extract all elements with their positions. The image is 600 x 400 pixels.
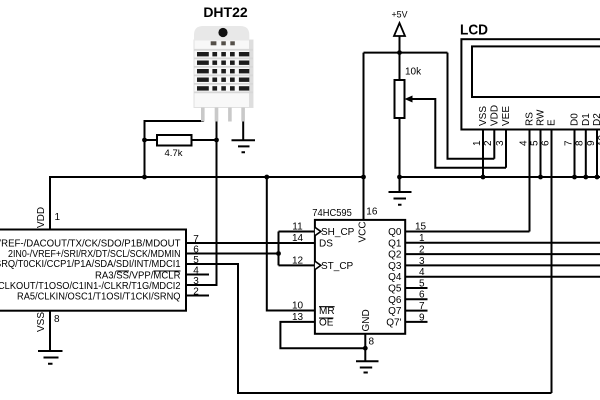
- svg-text:CLKOUT/T1OSO/C1IN1-/CLKR/T1G/M: CLKOUT/T1OSO/C1IN1-/CLKR/T1G/MDCI2: [0, 281, 181, 292]
- svg-text:RA5/CLKIN/OSC1/T1OSI/T1CKI/SRN: RA5/CLKIN/OSC1/T1OSI/T1CKI/SRNQ: [17, 291, 181, 302]
- svg-text:+5V: +5V: [392, 9, 408, 19]
- svg-text:4: 4: [419, 267, 425, 278]
- svg-text:11: 11: [292, 222, 303, 233]
- svg-text:13: 13: [292, 312, 304, 323]
- svg-text:4.7k: 4.7k: [165, 148, 183, 159]
- svg-text:1: 1: [419, 233, 425, 244]
- svg-text:Q4: Q4: [388, 272, 402, 283]
- svg-text:2: 2: [193, 287, 199, 298]
- svg-text:E: E: [547, 119, 558, 126]
- svg-text:9: 9: [586, 140, 597, 146]
- svg-text:74HC595: 74HC595: [312, 207, 352, 219]
- svg-text:DS: DS: [319, 238, 333, 249]
- svg-text:15: 15: [415, 222, 427, 233]
- svg-text:Q0: Q0: [388, 227, 402, 238]
- svg-text:1: 1: [55, 212, 61, 223]
- svg-text:Q3: Q3: [388, 261, 402, 272]
- svg-text:VEE: VEE: [501, 106, 512, 126]
- svg-text:D2: D2: [592, 113, 600, 126]
- svg-text:VCC: VCC: [358, 221, 369, 242]
- svg-text:3: 3: [419, 256, 425, 267]
- svg-text:RW: RW: [536, 109, 547, 126]
- svg-text:14: 14: [292, 233, 304, 244]
- svg-text:VSS: VSS: [36, 312, 47, 332]
- svg-text:RA3/SS/VPP/MCLR: RA3/SS/VPP/MCLR: [95, 270, 181, 281]
- svg-text:10k: 10k: [405, 67, 422, 78]
- svg-text:10: 10: [292, 301, 304, 312]
- svg-text:D1: D1: [581, 113, 592, 126]
- svg-text:9: 9: [419, 312, 425, 323]
- svg-text:6: 6: [419, 290, 425, 301]
- svg-text:7: 7: [563, 140, 574, 146]
- svg-text:3: 3: [193, 276, 199, 287]
- svg-text:3: 3: [495, 140, 506, 146]
- svg-text:5: 5: [193, 255, 199, 266]
- svg-text:Q5: Q5: [388, 284, 402, 295]
- svg-text:OE: OE: [319, 317, 334, 328]
- svg-text:8: 8: [369, 337, 375, 348]
- svg-text:GND: GND: [361, 309, 372, 331]
- svg-text:7: 7: [419, 301, 425, 312]
- svg-text:5: 5: [529, 140, 540, 146]
- svg-text:2: 2: [483, 140, 494, 146]
- svg-text:12: 12: [292, 256, 304, 267]
- svg-text:4: 4: [518, 140, 529, 146]
- svg-text:5: 5: [419, 278, 425, 289]
- svg-text:8: 8: [54, 314, 60, 325]
- svg-text:2: 2: [419, 245, 425, 256]
- svg-text:Q1: Q1: [388, 238, 402, 249]
- svg-text:16: 16: [366, 206, 378, 217]
- svg-text:VDD: VDD: [36, 207, 47, 228]
- svg-text:DHT22: DHT22: [203, 4, 248, 20]
- svg-text:D0: D0: [570, 113, 581, 126]
- svg-text:VSS: VSS: [478, 106, 489, 126]
- svg-text:MR: MR: [319, 306, 335, 317]
- svg-text:VDD: VDD: [490, 105, 501, 126]
- svg-text:1: 1: [472, 140, 483, 146]
- svg-text:Q6: Q6: [388, 295, 402, 306]
- svg-text:6: 6: [540, 140, 551, 146]
- svg-text:8: 8: [575, 140, 586, 146]
- svg-text:/VREF-/DACOUT/TX/CK/SDO/P1B/MD: /VREF-/DACOUT/TX/CK/SDO/P1B/MDOUT: [0, 238, 181, 249]
- svg-text:Q7': Q7': [386, 317, 401, 328]
- svg-text:Q2: Q2: [388, 250, 402, 261]
- svg-text:4: 4: [193, 266, 199, 277]
- svg-text:SH_CP: SH_CP: [321, 227, 355, 238]
- svg-text:LCD: LCD: [460, 22, 488, 39]
- svg-text:RS: RS: [525, 112, 536, 126]
- svg-text:SRQ/T0CKI/CCP1/P1A/SDA/SDI/INT: SRQ/T0CKI/CCP1/P1A/SDA/SDI/INT/MDCI1: [0, 259, 181, 270]
- svg-text:6: 6: [193, 245, 199, 256]
- svg-text:7: 7: [193, 234, 199, 245]
- svg-text:Q7: Q7: [388, 306, 402, 317]
- svg-text:ST_CP: ST_CP: [321, 261, 354, 272]
